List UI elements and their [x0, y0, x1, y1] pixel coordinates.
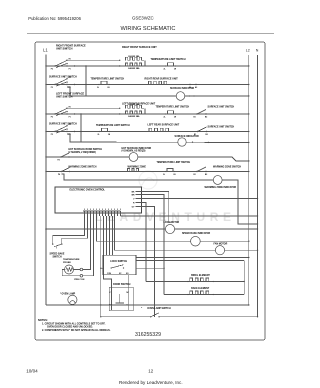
svg-text:2L: 2L: [164, 68, 166, 70]
surface unit switch row4 right: [197, 131, 198, 132]
svg-text:WARMING ZONE INDICATOR: WARMING ZONE INDICATOR: [205, 186, 237, 189]
svg-text:P2: P2: [51, 117, 53, 119]
wire row4 main: [46, 131, 249, 133]
temperature limit switch row1: [165, 65, 166, 66]
warming zone switch left: [45, 171, 46, 172]
svg-text:OVEN LAMP SWITCH: OVEN LAMP SWITCH: [147, 307, 171, 310]
wire fan motor row: [115, 216, 216, 250]
wire lock box top feed A: [106, 216, 108, 255]
schematic border frame: [35, 42, 265, 340]
warming zone indicator lamp: [213, 176, 222, 185]
wire lock box top feed B: [109, 216, 111, 255]
lock switch contacts: [111, 267, 112, 268]
svg-text:SPEED BAKE: SPEED BAKE: [50, 252, 65, 255]
wire x148 drop: [141, 199, 143, 201]
wire bake row: [164, 294, 244, 296]
svg-text:SWITCH: SWITCH: [52, 257, 61, 259]
svg-text:SURFACE UNIT SWITCH: SURFACE UNIT SWITCH: [208, 125, 235, 128]
svg-text:10/04: 10/04: [26, 368, 38, 373]
svg-text:B1: B1: [194, 116, 196, 118]
wire speed bake switch feed A: [53, 216, 85, 244]
svg-text:NOTES:: NOTES:: [38, 318, 48, 322]
svg-text:LOCK MOTOR: LOCK MOTOR: [164, 222, 180, 224]
wire EOC R to broil feed: [142, 203, 147, 282]
wire oven lamp row: [46, 304, 249, 306]
svg-text:L1: L1: [43, 48, 48, 53]
svg-text:2L: 2L: [163, 174, 165, 176]
svg-text:NC: NC: [126, 292, 129, 294]
svg-text:2H: 2H: [174, 68, 177, 70]
svg-text:COM: COM: [107, 273, 112, 275]
svg-text:LEFT REAR SURFACE UNIT: LEFT REAR SURFACE UNIT: [148, 124, 180, 127]
wire lock box to L2 row257: [136, 257, 249, 259]
svg-text:A2: A2: [195, 86, 197, 89]
wire fan motor row to N: [215, 249, 258, 251]
svg-text:2H: 2H: [174, 116, 177, 118]
svg-text:SURFACE UNIT SWITCH: SURFACE UNIT SWITCH: [49, 123, 77, 126]
svg-text:A1: A1: [189, 86, 191, 89]
svg-text:RIGHT FRONT SURFACE UNIT: RIGHT FRONT SURFACE UNIT: [122, 46, 157, 49]
svg-text:LOCK SWITCH: LOCK SWITCH: [110, 260, 127, 263]
svg-text:P4: P4: [58, 173, 60, 176]
wire row1 main: [46, 65, 249, 67]
wire EOC GY to lamp switch feed: [142, 207, 155, 317]
lock motor: [165, 224, 174, 233]
svg-text:Publication No: 5995419206: Publication No: 5995419206: [28, 16, 81, 21]
wire speed bake row to L2: [190, 240, 249, 242]
svg-text:TEMPERATURE: TEMPERATURE: [63, 258, 80, 261]
svg-text:2L: 2L: [97, 87, 99, 89]
wire row5: [46, 157, 249, 161]
svg-text:V: V: [133, 198, 135, 200]
svg-text:R1: R1: [69, 124, 71, 126]
surface indicator lamp row4: [178, 138, 186, 146]
resistor bake element: [190, 291, 212, 294]
svg-text:B1: B1: [194, 174, 196, 176]
svg-text:WARMING ZONE SWITCH: WARMING ZONE SWITCH: [213, 165, 241, 168]
svg-text:SURFACE UNIT SWITCH: SURFACE UNIT SWITCH: [208, 105, 235, 108]
temperature limit switch row2: [98, 84, 99, 85]
speed bake switch: [52, 243, 53, 244]
wire row6: [46, 171, 249, 173]
EOC bottom connector pins: [84, 211, 86, 216]
svg-text:B2: B2: [205, 116, 207, 118]
wire row2 main: [46, 84, 249, 86]
svg-text:2H: 2H: [108, 134, 111, 136]
wire lock box top feed C: [112, 216, 114, 255]
door switch contact bars: [110, 289, 112, 310]
wire row3 upper branch: [67, 107, 120, 109]
svg-text:SURFACE UNIT SWITCH: SURFACE UNIT SWITCH: [49, 76, 77, 79]
junction row2-L2: [248, 84, 249, 85]
svg-text:PROBE: PROBE: [63, 262, 71, 264]
svg-text:P2: P2: [51, 87, 53, 89]
wire lock box to door bar: [127, 275, 129, 289]
hot surface bond switch: [45, 156, 46, 157]
svg-text:P1: P1: [69, 68, 71, 70]
svg-text:R1: R1: [69, 77, 71, 79]
svg-text:TEMPERATURE LIMIT SWITCH: TEMPERATURE LIMIT SWITCH: [156, 106, 190, 109]
svg-text:BK: BK: [132, 191, 135, 193]
svg-text:BAKE ELEMENT: BAKE ELEMENT: [191, 287, 210, 290]
junction row7-N: [257, 223, 258, 224]
svg-text:P2: P2: [51, 134, 53, 136]
svg-text:UNIT SWITCH: UNIT SWITCH: [56, 96, 73, 99]
electronic oven control box: [55, 187, 142, 213]
junction row1-L2: [248, 65, 249, 66]
svg-text:2. COMPONENTS WITH * DO NOT: 2. COMPONENTS WITH * DO NOT APPEAR IN AL…: [42, 329, 111, 332]
wire row2 indicator branch: [67, 87, 249, 96]
door switch actuator link: [119, 294, 121, 303]
svg-text:ELECTRONIC OVEN CONTROL: ELECTRONIC OVEN CONTROL: [70, 189, 106, 192]
wire mid vertical row1 to indicator branch: [85, 66, 87, 96]
temperature limit switch row4: [99, 131, 100, 132]
junction row4-L2: [248, 131, 249, 132]
svg-text:PRB CON: PRB CON: [74, 279, 85, 281]
svg-text:R: R: [133, 202, 135, 204]
surface unit switch row3 right: [196, 113, 197, 114]
right front surface unit switch: [45, 65, 46, 66]
speed bake indicator lamp: [191, 236, 201, 246]
svg-text:BROIL ELEMENT: BROIL ELEMENT: [191, 275, 210, 277]
header underline rule: [27, 32, 274, 34]
probe connector rings: [80, 268, 83, 271]
wire lock feed branch: [101, 267, 103, 269]
wire row1 upper branch: [67, 59, 120, 61]
wire EOC BR down: [142, 195, 165, 217]
resistor warming zone element: [128, 169, 141, 172]
svg-text:2L: 2L: [98, 134, 100, 136]
svg-text:3000W 2BL: 3000W 2BL: [128, 56, 140, 58]
junction row3-L2: [248, 113, 249, 114]
svg-text:HOT SURFACE INDICATOR: HOT SURFACE INDICATOR: [122, 147, 152, 150]
watermark logo circle: [139, 171, 157, 189]
wire element loop top row: [136, 260, 244, 262]
svg-text:GY: GY: [132, 206, 136, 208]
svg-text:L2: L2: [246, 48, 250, 52]
wire probe lead B: [83, 216, 94, 276]
svg-text:TEMPERATURE LIMIT SWITCH: TEMPERATURE LIMIT SWITCH: [157, 161, 191, 164]
wire element right vertical: [243, 261, 245, 295]
resistor right front surface unit element (dual): [126, 57, 144, 60]
resistor left rear surface unit element: [149, 128, 171, 131]
svg-text:B1: B1: [194, 134, 196, 136]
wire staircase to N row216: [121, 215, 258, 217]
surface unit switch row2: [45, 84, 46, 85]
svg-text:GSE3WZC: GSE3WZC: [132, 16, 154, 21]
fan motor: [215, 246, 224, 255]
svg-text:FAN MOTOR: FAN MOTOR: [214, 242, 228, 245]
wire probe lead A: [83, 216, 91, 270]
svg-text:12: 12: [148, 369, 153, 374]
surface indicator lamp row2: [176, 92, 185, 101]
probe wiring loop: [62, 270, 80, 276]
svg-text:2400W 2BL: 2400W 2BL: [128, 67, 140, 70]
svg-text:P4: P4: [58, 158, 60, 161]
svg-text:SPEED BAKE INDICATOR: SPEED BAKE INDICATOR: [182, 232, 210, 235]
svg-text:2L: 2L: [164, 116, 166, 118]
wire speed bake row: [97, 216, 191, 241]
surface unit switch row4: [45, 131, 46, 132]
svg-text:TEMPERATURE LIMIT SWITCH: TEMPERATURE LIMIT SWITCH: [96, 124, 130, 127]
svg-text:2400W 2BL: 2400W 2BL: [128, 115, 140, 118]
svg-text:Rendered by LeadVenture, Inc.: Rendered by LeadVenture, Inc.: [119, 380, 183, 385]
svg-text:(4 SHOWN, AS REQD): (4 SHOWN, AS REQD): [122, 150, 146, 153]
wire lock door drop: [100, 216, 102, 317]
svg-text:P1: P1: [69, 116, 71, 118]
wire N bus: [257, 55, 259, 317]
wire lamp switch row: [101, 316, 151, 318]
wire EOC V row198 to N: [142, 198, 258, 200]
terminal ticks row2 right: [189, 84, 190, 85]
junction dots mid verticals: [85, 84, 86, 85]
svg-text:R1: R1: [69, 107, 71, 109]
svg-text:P1: P1: [69, 87, 71, 89]
wire speed bake switch feed B: [62, 216, 88, 244]
svg-text:(2 SHOWN, 2 REQUIRED): (2 SHOWN, 2 REQUIRED): [68, 152, 96, 154]
temperature limit switch row3: [165, 113, 166, 114]
resistor broil element: [190, 278, 212, 281]
svg-text:DOOR SWITCH: DOOR SWITCH: [113, 283, 131, 286]
svg-text:*: *: [141, 308, 142, 310]
wire bake feed vertical: [163, 217, 165, 295]
svg-text:WARMING ZONE SWITCH: WARMING ZONE SWITCH: [68, 166, 96, 169]
svg-text:N: N: [256, 48, 259, 52]
wire row4 indicator branch: [67, 134, 249, 143]
svg-text:HOT SURFACE BOND SWITCH: HOT SURFACE BOND SWITCH: [68, 148, 102, 151]
wire broil row: [146, 281, 244, 283]
svg-text:P2: P2: [51, 69, 53, 71]
junction row5-L2: [248, 160, 249, 161]
svg-text:B2: B2: [205, 174, 207, 176]
junction row6-L2: [248, 171, 249, 172]
svg-text:UNIT SWITCH: UNIT SWITCH: [56, 48, 73, 51]
terminal dots right of switches: [74, 65, 75, 66]
resistor right rear surface unit element: [149, 81, 170, 84]
wire lock box to bake feed: [136, 267, 164, 269]
temperature limit switch row6: [165, 171, 166, 172]
svg-text:TEMPERATURE LIMIT SWITCH: TEMPERATURE LIMIT SWITCH: [151, 58, 186, 61]
svg-text:P1: P1: [69, 134, 71, 136]
svg-text:316255329: 316255329: [135, 332, 161, 338]
left front surface unit switch: [45, 113, 46, 114]
svg-text:B2: B2: [206, 134, 208, 136]
lock switch box: [103, 255, 136, 274]
svg-text:RIGHT REAR SURFACE UNIT: RIGHT REAR SURFACE UNIT: [145, 78, 179, 81]
wire row7 warming indicator branch: [62, 174, 258, 224]
svg-text:LEFT FRONT SURFACE UNIT: LEFT FRONT SURFACE UNIT: [122, 102, 156, 105]
wire door switch feed: [104, 216, 112, 289]
svg-text:WIRING SCHEMATIC: WIRING SCHEMATIC: [121, 26, 176, 32]
wire mid vertical row3 branch: [80, 114, 82, 142]
resistor left front surface unit element (dual): [126, 105, 144, 108]
svg-text:2H: 2H: [173, 174, 176, 176]
hot surface indicator lamp: [129, 153, 138, 162]
wire L2 bus: [248, 55, 250, 305]
wire lock motor row y229: [46, 228, 258, 230]
svg-text:TEMPERATURE LIMIT SWITCH: TEMPERATURE LIMIT SWITCH: [91, 77, 125, 80]
svg-text:BR: BR: [132, 194, 135, 196]
wire L1 bus: [45, 55, 47, 306]
wire EOC BK to N via x238: [142, 192, 172, 223]
svg-text:R1: R1: [69, 59, 71, 61]
warming zone switch right: [196, 171, 197, 172]
door switch assembly: [109, 287, 133, 311]
svg-text:2H: 2H: [107, 87, 110, 89]
svg-text:WARMING ZONE: WARMING ZONE: [128, 165, 147, 168]
wire row3 main: [46, 113, 249, 115]
